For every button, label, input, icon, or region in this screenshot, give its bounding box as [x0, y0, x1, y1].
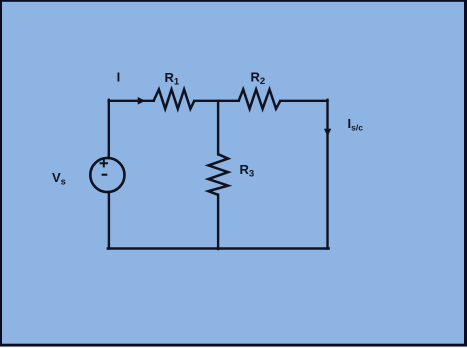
resistor R1: [154, 89, 195, 108]
wire: bottom rail: [108, 247, 329, 249]
current arrow I (on top-left wire, pointing right): [138, 97, 146, 105]
wire: right vertical from top rail down to bottom rail: [326, 100, 328, 249]
resistor R3: [208, 154, 228, 195]
wire: top rail from R2 to top-right corner: [280, 100, 327, 102]
wire: left vertical, voltage source bottom down to bottom rail: [108, 192, 110, 249]
wire: middle vertical from node A down to R3: [217, 101, 219, 155]
voltage source Vs (circle symbol): [90, 158, 124, 192]
wire: top rail from R1 to R2 (through node A): [194, 100, 238, 102]
wire: middle vertical from R3 down to bottom rail: [217, 195, 219, 249]
wire: top rail from left corner to R1: [109, 100, 154, 102]
svg-text:I: I: [117, 70, 121, 85]
wire: left vertical, top-left corner down to voltage source top: [108, 100, 110, 158]
current arrow Is/c (on right branch, pointing down): [324, 129, 331, 137]
resistor R2: [239, 89, 281, 108]
